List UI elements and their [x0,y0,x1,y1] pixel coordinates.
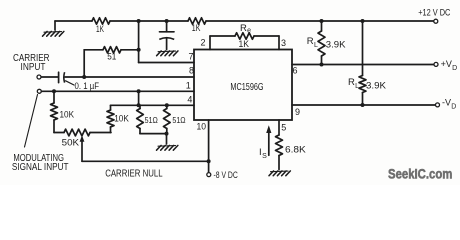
node 51ohm-2 junction [165,103,169,107]
svg-text:8: 8 [189,66,194,76]
node cap-51 junction [82,75,86,79]
node 51-ohm common [165,132,169,136]
svg-text:2: 2 [200,38,205,48]
wire pin1 to pin4 vertical [138,91,140,105]
svg-text:-VD: -VD [442,98,456,111]
node 51ohm-1 junction [137,103,141,107]
wire pin 8 row [65,76,194,78]
node carrier-null junction [207,159,211,163]
svg-text:51: 51 [107,51,116,61]
resistor 51-ohm right [166,105,168,108]
wire 51 feeder vertical [83,50,85,77]
ground top-left [54,21,56,30]
potentiometer 50K [54,132,64,134]
capacitor C 0.1uF [58,72,60,82]
svg-text:6.8K: 6.8K [285,145,306,155]
wire carrier input to cap [41,76,58,78]
wire +12V rail [206,20,434,22]
svg-text:+VD: +VD [441,59,458,72]
terminal -8 V DC [207,173,211,177]
svg-text:Re: Re [240,23,251,35]
svg-text:51Ω: 51Ω [172,115,185,125]
svg-text:10: 10 [197,122,207,132]
resistor 10K right [110,105,112,110]
resistor Re 1K [235,33,254,39]
svg-text:9: 9 [295,107,300,117]
wire pin 7 feeder vertical [138,21,140,63]
wire pin 6 row [292,64,434,66]
svg-text:CARRIER NULL: CARRIER NULL [105,168,163,180]
label modulating signal input [25,95,38,148]
current arrow Is [268,131,270,155]
wire pin 9 row [292,104,435,106]
node RL1 bottom [320,63,324,67]
wire bias rail left [55,20,92,22]
ground under bypass capacitor [158,50,176,53]
svg-text:RL: RL [348,77,359,90]
terminal +12 V DC [434,19,438,23]
terminal modulating signal input [37,89,41,93]
wire to ground [166,134,168,144]
wire pin 7 row [139,62,194,64]
wire pin 3 stub [254,35,279,37]
op-amp U1 MC1596G [194,50,292,121]
svg-text:5: 5 [281,123,286,133]
resistor 51 [84,49,103,51]
wiper arrow 50K [81,139,83,161]
svg-text:0. 1 µF: 0. 1 µF [75,81,100,91]
terminal +VD [434,62,438,66]
resistor 6.8K [276,135,283,156]
node RL2 bottom [361,103,365,107]
node RL1 junction [320,19,324,23]
node pin1-pin4 junction [137,89,141,93]
svg-text:10K: 10K [114,113,129,123]
resistor 10K left [53,91,55,103]
ground under 51-ohm resistors [158,145,176,148]
resistor 1K left bias [92,18,110,24]
ground under 6.8K [271,170,289,173]
wire bias node to 1K [167,20,188,22]
svg-text:3: 3 [281,38,286,48]
node 51-ohm junction [137,48,141,52]
node bias junction [137,19,141,23]
svg-text:50K: 50K [62,137,79,147]
svg-text:6: 6 [293,66,298,76]
svg-text:51Ω: 51Ω [145,115,158,125]
node 10K-1 junction [52,89,56,93]
wire pin 10 stub [208,120,210,172]
capacitor bypass to ground [166,21,168,32]
node RL2 junction [361,19,365,23]
svg-text:IS: IS [259,147,267,160]
wire pin 4 row [111,104,195,106]
svg-text:1K: 1K [192,23,201,33]
svg-text:1K: 1K [96,24,104,34]
svg-text:1: 1 [186,80,191,90]
svg-text:4: 4 [187,95,192,105]
svg-text:+12 V DC: +12 V DC [418,7,451,17]
resistor 51-ohm left [139,105,141,108]
svg-text:SeekIC.com: SeekIC.com [388,167,452,182]
resistor 1K right bias [188,18,206,24]
svg-text:-8 V DC: -8 V DC [214,170,239,180]
svg-text:1K: 1K [239,39,250,49]
svg-text:3.9K: 3.9K [366,81,386,91]
node cap junction [165,19,169,23]
svg-text:MC1596G: MC1596G [230,82,263,93]
wire bias node [110,20,167,22]
svg-text:INPUT: INPUT [21,61,46,73]
svg-text:SIGNAL INPUT: SIGNAL INPUT [12,161,69,173]
svg-text:7: 7 [188,52,193,62]
svg-text:RL: RL [307,36,318,49]
wire pin 1 row [42,90,195,92]
terminal carrier input [37,75,41,79]
svg-text:3.9K: 3.9K [326,39,346,49]
wire carrier null [82,160,209,162]
resistor RL2 3.9K [362,21,364,76]
wire 51-ohm common [140,133,167,135]
wire pin 5 stub [278,120,280,135]
svg-text:10K: 10K [60,110,75,120]
wire pin 2 stub [209,36,211,50]
terminal -VD [436,103,440,107]
resistor RL1 3.9K [321,21,323,31]
